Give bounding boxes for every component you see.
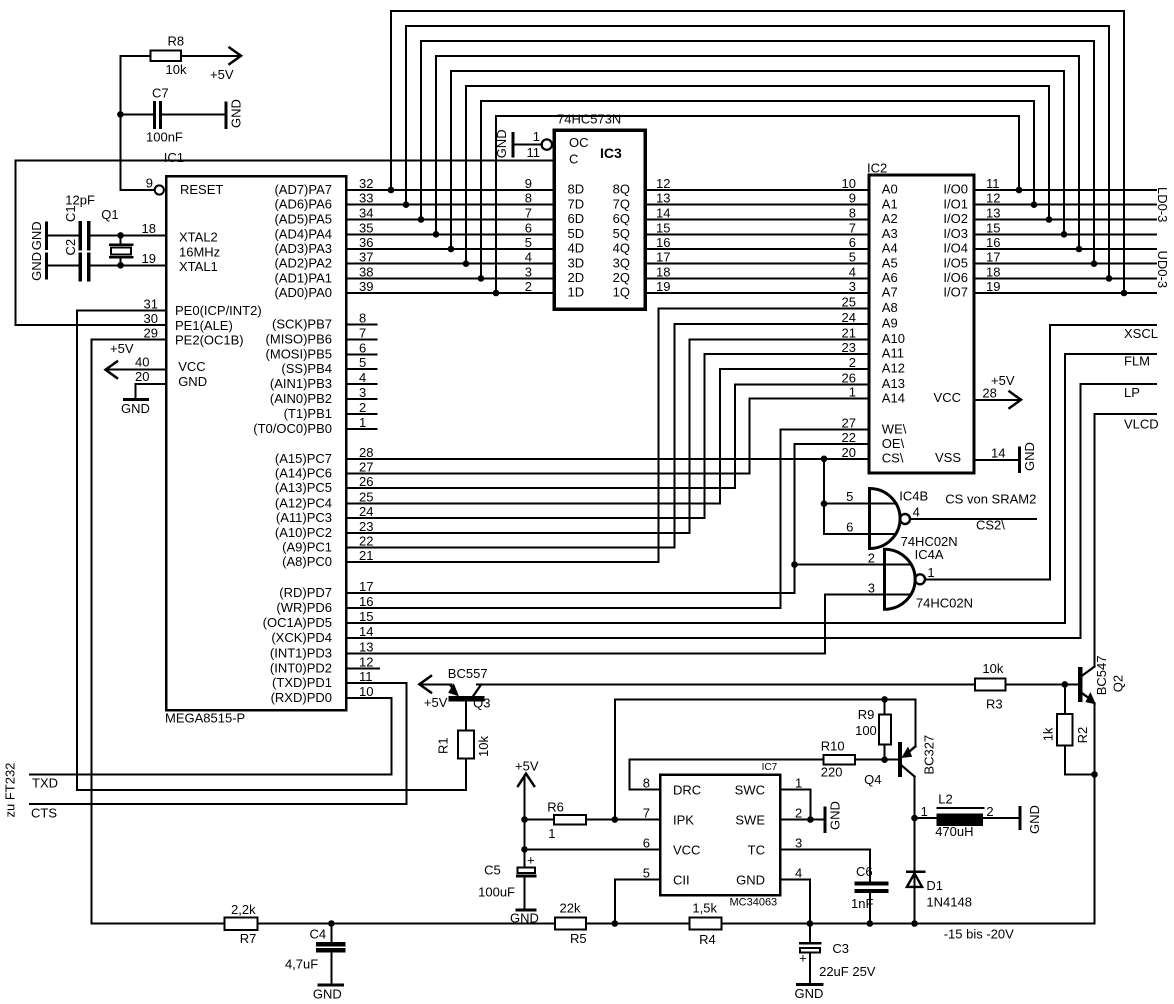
- svg-text:11: 11: [359, 669, 373, 684]
- svg-text:22: 22: [842, 430, 856, 445]
- crystal Q1 stubs: [120, 235, 122, 265]
- svg-text:(A8)PC0: (A8)PC0: [282, 554, 332, 569]
- svg-text:26: 26: [359, 474, 373, 489]
- junction PA7 riser: [388, 187, 395, 194]
- svg-text:A8: A8: [882, 300, 898, 315]
- wire IC4B pin5 input: [824, 503, 895, 505]
- svg-text:I/O6: I/O6: [943, 270, 968, 285]
- wire PC4 to A12 staircase: [346, 369, 869, 504]
- svg-text:12: 12: [986, 191, 1000, 206]
- wire R2 from Q2 base down and to emitter: [1065, 684, 1095, 774]
- svg-text:A10: A10: [882, 331, 905, 346]
- svg-text:18: 18: [986, 264, 1000, 279]
- svg-text:(AD6)PA6: (AD6)PA6: [274, 197, 332, 212]
- svg-text:3D: 3D: [568, 255, 585, 270]
- svg-text:A2: A2: [882, 211, 898, 226]
- svg-text:17: 17: [986, 250, 1000, 265]
- ground bar (IC2 VSS): [1018, 448, 1021, 472]
- svg-text:3: 3: [359, 385, 366, 400]
- wire I/O4 row: [974, 248, 1156, 250]
- wire PD7/RD to IC2 OE: [346, 444, 869, 593]
- bus wire PA2 to I/O2: [466, 86, 1049, 264]
- wire PC7/A15 row to IC2 CS: [346, 458, 869, 460]
- junction I/O7 dropper: [1121, 290, 1128, 297]
- svg-text:2: 2: [525, 279, 532, 294]
- +5V arrow right (R8): [230, 48, 242, 64]
- svg-text:2: 2: [868, 551, 875, 566]
- svg-text:PE0(ICP/INT2): PE0(ICP/INT2): [175, 303, 262, 318]
- wire PA6 row IC1 to IC3 7D: [346, 204, 554, 206]
- svg-text:(A10)PC2: (A10)PC2: [275, 525, 332, 540]
- capacitor C4 wire top: [330, 924, 332, 943]
- svg-text:R5: R5: [570, 931, 587, 946]
- svg-text:TXD: TXD: [32, 776, 58, 791]
- resistor R9 box: [879, 714, 891, 744]
- IC3 pin1 OC inversion circle: [542, 139, 552, 149]
- svg-text:1,5k: 1,5k: [692, 901, 717, 916]
- junction SWE ground node: [807, 816, 814, 823]
- svg-text:FLM: FLM: [1124, 354, 1150, 369]
- wire D1 vertical: [914, 818, 916, 923]
- junction C4 on rail: [328, 920, 335, 927]
- +5V arrow up (C5 node): [518, 774, 534, 786]
- svg-text:19: 19: [142, 251, 156, 266]
- svg-text:GND: GND: [510, 911, 539, 926]
- capacitor C1 plates: [80, 223, 89, 249]
- svg-text:23: 23: [359, 519, 373, 534]
- svg-text:GND: GND: [121, 401, 150, 416]
- svg-text:(MOSI)PB5: (MOSI)PB5: [266, 346, 332, 361]
- svg-text:LD0-3: LD0-3: [1155, 187, 1170, 222]
- ground bar (L2): [1019, 807, 1022, 828]
- capacitor C5 bottom plate: [517, 875, 535, 878]
- svg-text:4: 4: [525, 250, 532, 265]
- bus wire PA4 to I/O4: [436, 56, 1079, 249]
- svg-text:3: 3: [795, 835, 802, 850]
- svg-text:R7: R7: [240, 931, 257, 946]
- svg-text:C1: C1: [63, 205, 78, 222]
- svg-text:(RD)PD7: (RD)PD7: [279, 585, 332, 600]
- svg-text:(AIN0)PB2: (AIN0)PB2: [270, 391, 332, 406]
- transistor Q4 emitter diagonal: [909, 747, 915, 752]
- svg-text:I/O0: I/O0: [943, 182, 968, 197]
- resistor R8 box: [151, 51, 182, 62]
- wire 2Q to A6: [645, 277, 869, 279]
- svg-text:(A11)PC3: (A11)PC3: [276, 510, 332, 525]
- transistor Q4 emitter arrowhead: [902, 748, 911, 758]
- resistor R10 box: [824, 755, 855, 765]
- svg-text:4: 4: [795, 865, 802, 880]
- svg-text:XTAL2: XTAL2: [179, 230, 218, 245]
- svg-text:2Q: 2Q: [613, 270, 630, 285]
- stub PB5 pin6: [346, 353, 376, 355]
- stub PB3 pin4: [346, 383, 376, 385]
- wire R9 top: [884, 699, 886, 714]
- svg-text:7Q: 7Q: [613, 196, 630, 211]
- svg-text:35: 35: [359, 220, 373, 235]
- transistor Q3 collector diagonal: [473, 685, 481, 697]
- svg-text:10k: 10k: [476, 736, 491, 757]
- bus wire PA1 to I/O1: [481, 101, 1034, 278]
- svg-text:16: 16: [986, 235, 1000, 250]
- wire 6Q to A2: [645, 219, 869, 221]
- wire PE0 pin31 to lower-left run to R1: [77, 311, 466, 790]
- svg-text:+: +: [527, 853, 535, 868]
- wire C5 to ground: [524, 878, 526, 909]
- svg-text:(MISO)PB6: (MISO)PB6: [266, 331, 332, 346]
- svg-text:GND: GND: [178, 374, 207, 389]
- bottom rail -15V: [92, 923, 1095, 925]
- wire PA1 row IC1 to IC3 2D: [346, 277, 554, 279]
- svg-text:(A13)PC5: (A13)PC5: [275, 480, 332, 495]
- ground bar (IC7 SWE): [823, 808, 826, 832]
- svg-text:(AIN1)PB3: (AIN1)PB3: [270, 376, 332, 391]
- junction IC4B pin5 tap: [821, 500, 828, 507]
- svg-text:A4: A4: [882, 241, 898, 256]
- wire I/O6 row: [974, 277, 1156, 279]
- wire IC7 pin5 CII down to R5 node: [615, 879, 660, 923]
- svg-text:I/O4: I/O4: [943, 241, 968, 256]
- svg-text:4Q: 4Q: [613, 241, 630, 256]
- svg-text:R2: R2: [1075, 727, 1090, 744]
- bus wire PA7 to I/O7: [391, 11, 1124, 293]
- junction I/O4 dropper: [1076, 246, 1083, 253]
- svg-text:A11: A11: [882, 346, 904, 361]
- svg-text:10k: 10k: [982, 661, 1003, 676]
- bus wire PA5 to I/O5: [421, 41, 1094, 264]
- svg-text:25: 25: [359, 490, 373, 505]
- svg-text:1: 1: [795, 776, 802, 791]
- svg-text:16: 16: [359, 594, 373, 609]
- svg-text:1Q: 1Q: [613, 285, 630, 300]
- svg-text:A13: A13: [882, 376, 905, 391]
- wire R10 to Q4 base: [855, 759, 898, 761]
- svg-text:5: 5: [849, 250, 856, 265]
- svg-text:6: 6: [643, 835, 650, 850]
- IC3 74HC573N box: [554, 130, 645, 309]
- wire PC6 to A14 staircase: [346, 399, 869, 474]
- svg-text:21: 21: [359, 548, 373, 563]
- svg-text:GND: GND: [795, 986, 824, 1001]
- svg-text:220: 220: [821, 765, 843, 780]
- svg-text:D1: D1: [926, 878, 943, 893]
- svg-text:36: 36: [359, 235, 373, 250]
- svg-text:5: 5: [643, 865, 650, 880]
- wire PC2 to A10 staircase: [346, 339, 869, 533]
- junction CII/R5 on rail: [612, 920, 619, 927]
- wire I/O2 row: [974, 219, 1156, 221]
- resistor R3 box: [975, 678, 1005, 690]
- svg-text:2: 2: [849, 355, 856, 370]
- svg-text:2D: 2D: [568, 270, 585, 285]
- capacitor C5 top plate (hollow): [517, 867, 535, 873]
- svg-text:10k: 10k: [166, 62, 187, 77]
- diode D1 triangle: [907, 873, 922, 887]
- svg-text:7D: 7D: [568, 196, 585, 211]
- NOR gate IC4B body: [870, 489, 901, 549]
- bus wire PA6 to I/O6: [406, 26, 1109, 278]
- capacitor C7 plates: [155, 103, 161, 128]
- svg-text:DRC: DRC: [673, 783, 701, 798]
- junction XTAL2/C1/Q1: [117, 232, 124, 239]
- svg-text:(AD7)PA7: (AD7)PA7: [274, 182, 332, 197]
- wire Q2 collector up to VLCD: [1094, 414, 1096, 667]
- stub PB4 pin5: [346, 368, 376, 370]
- svg-text:470uH: 470uH: [935, 824, 973, 839]
- svg-text:8: 8: [643, 776, 650, 791]
- resistor R2 box: [1057, 714, 1072, 745]
- wire PC5 to A13 staircase: [346, 384, 869, 488]
- svg-text:BC557: BC557: [448, 666, 488, 681]
- svg-text:39: 39: [359, 279, 373, 294]
- NOR gate IC4A body: [885, 549, 916, 609]
- IC1 MEGA8515-P box: [166, 176, 346, 710]
- svg-text:13: 13: [359, 640, 373, 655]
- wire PA0 row IC1 to IC3 1D: [346, 292, 554, 294]
- svg-text:13: 13: [656, 191, 670, 206]
- svg-text:14: 14: [359, 624, 373, 639]
- svg-text:CTS: CTS: [31, 806, 57, 821]
- svg-text:IC2: IC2: [867, 161, 887, 176]
- stub PB1 pin2: [346, 413, 376, 415]
- junction PA2 riser: [463, 260, 470, 267]
- capacitor C3 wire to ground: [809, 953, 811, 984]
- capacitor C2 plates: [80, 254, 89, 280]
- svg-text:A9: A9: [882, 316, 898, 331]
- wire PD3/INT1 to IC4A pin3: [346, 595, 911, 654]
- crystal Q1 plates: [110, 245, 132, 257]
- svg-text:TC: TC: [748, 842, 765, 857]
- svg-text:7: 7: [849, 220, 856, 235]
- junction R6/IPK node: [612, 816, 619, 823]
- svg-text:C4: C4: [309, 927, 326, 942]
- svg-text:100uF: 100uF: [478, 885, 515, 900]
- capacitor C7 left wire: [120, 113, 152, 115]
- svg-text:-15 bis -20V: -15 bis -20V: [944, 927, 1014, 942]
- IC4B output inversion bubble: [900, 514, 910, 524]
- svg-text:9: 9: [525, 176, 532, 191]
- svg-text:11: 11: [527, 145, 541, 160]
- svg-text:23: 23: [842, 340, 856, 355]
- wire 1Q to A7: [645, 292, 869, 294]
- svg-text:1: 1: [548, 826, 555, 841]
- svg-text:+5V: +5V: [515, 759, 539, 774]
- svg-text:(WR)PD6: (WR)PD6: [276, 600, 332, 615]
- svg-text:8: 8: [359, 311, 366, 326]
- wire IC7 pin8 DRC up to R10 row: [629, 760, 823, 790]
- svg-text:OE\: OE\: [882, 436, 905, 451]
- svg-text:15: 15: [986, 220, 1000, 235]
- wire L2 pin2 to ground: [982, 817, 1020, 819]
- svg-text:2: 2: [986, 804, 993, 819]
- svg-text:CS von SRAM2: CS von SRAM2: [945, 492, 1036, 507]
- svg-text:24: 24: [842, 310, 856, 325]
- junction R9 top node: [881, 696, 888, 703]
- svg-text:10: 10: [842, 176, 856, 191]
- svg-text:IPK: IPK: [673, 813, 694, 828]
- svg-text:L2: L2: [938, 792, 952, 807]
- svg-text:22k: 22k: [560, 901, 581, 916]
- svg-text:1: 1: [921, 804, 928, 819]
- wire IC7 pin4 GND to rail: [780, 879, 810, 923]
- svg-text:12pF: 12pF: [65, 193, 95, 208]
- stub PB2 pin3: [346, 398, 376, 400]
- svg-text:LP: LP: [1124, 385, 1140, 400]
- wire IC7 pin6 VCC to C5 node: [525, 848, 661, 850]
- transistor Q4 collector diagonal: [902, 766, 914, 777]
- junction PA6 riser: [403, 201, 410, 208]
- svg-text:17: 17: [656, 250, 670, 265]
- wire IC3 pin1 OC to ground bar: [513, 144, 542, 146]
- inductor L2 top line: [937, 807, 983, 809]
- svg-text:A7: A7: [882, 285, 898, 300]
- wire I/O0 row: [974, 189, 1156, 191]
- svg-text:XTAL1: XTAL1: [179, 259, 218, 274]
- ground bar (IC1 GND): [125, 398, 148, 401]
- svg-text:(INT1)PD3: (INT1)PD3: [270, 646, 332, 661]
- svg-text:+5V: +5V: [110, 341, 134, 356]
- transistor Q2 emitter diagonal: [1082, 694, 1089, 699]
- svg-text:8Q: 8Q: [613, 182, 630, 197]
- svg-text:(AD5)PA5: (AD5)PA5: [274, 212, 332, 227]
- svg-text:A12: A12: [882, 361, 905, 376]
- transistor Q3 emitter diagonal: [451, 685, 457, 692]
- svg-text:Q3: Q3: [473, 696, 490, 711]
- ground bar (IC3 OC): [511, 134, 514, 157]
- wire L2 row from Q4 collector node: [915, 817, 938, 819]
- svg-text:24: 24: [359, 504, 373, 519]
- wire PA4 row IC1 to IC3 5D: [346, 233, 554, 235]
- svg-text:CS\: CS\: [882, 450, 904, 465]
- wire IC7 pin3 TC to C6: [780, 849, 870, 881]
- IC7 MC34063 box: [660, 775, 780, 896]
- ground bar (C7): [224, 103, 227, 128]
- svg-text:IC7: IC7: [762, 762, 778, 773]
- svg-text:PE2(OC1B): PE2(OC1B): [175, 332, 244, 347]
- bus wire PA0 to I/O0: [496, 116, 1019, 293]
- wire I/O1 row: [974, 204, 1156, 206]
- svg-text:CS2\: CS2\: [976, 518, 1005, 533]
- svg-text:(AD4)PA4: (AD4)PA4: [274, 226, 332, 241]
- capacitor C7 right wire to GND: [162, 113, 226, 115]
- svg-text:R8: R8: [168, 34, 185, 49]
- wire PA7 row IC1 to IC3 8D: [346, 189, 554, 191]
- svg-text:2,2k: 2,2k: [231, 902, 256, 917]
- +5V arrow left (Q3 emitter): [419, 676, 431, 693]
- svg-text:XSCL: XSCL: [1124, 326, 1158, 341]
- svg-text:7: 7: [643, 806, 650, 821]
- svg-text:6Q: 6Q: [613, 211, 630, 226]
- wire R8 right to +5V arrow: [181, 55, 240, 57]
- svg-text:A1: A1: [882, 196, 898, 211]
- svg-text:BC327: BC327: [922, 735, 937, 775]
- bus wire PA3 to I/O3: [451, 71, 1064, 249]
- svg-text:GND: GND: [313, 987, 342, 1002]
- svg-text:11: 11: [986, 176, 1000, 191]
- svg-text:12: 12: [359, 654, 373, 669]
- svg-text:21: 21: [842, 325, 856, 340]
- svg-text:14: 14: [656, 206, 670, 221]
- svg-text:1: 1: [927, 565, 934, 580]
- svg-text:GND: GND: [29, 252, 44, 281]
- svg-text:7: 7: [359, 325, 366, 340]
- svg-text:3: 3: [849, 279, 856, 294]
- stub PD2 pin12: [346, 667, 379, 669]
- svg-text:30: 30: [144, 311, 158, 326]
- svg-text:IC3: IC3: [600, 145, 622, 161]
- svg-text:MC34063: MC34063: [729, 897, 777, 909]
- svg-text:5: 5: [359, 355, 366, 370]
- svg-text:8D: 8D: [568, 182, 585, 197]
- svg-text:(AD0)PA0: (AD0)PA0: [274, 285, 332, 300]
- junction R9 bottom / Q4 base node: [881, 756, 888, 763]
- svg-text:VLCD: VLCD: [1124, 417, 1159, 432]
- svg-text:19: 19: [656, 279, 670, 294]
- junction VCC/C5 node: [521, 846, 528, 853]
- svg-text:(TXD)PD1: (TXD)PD1: [272, 675, 332, 690]
- IC2 SRAM box: [869, 175, 974, 473]
- junction I/O6 dropper: [1106, 275, 1113, 282]
- svg-text:6: 6: [846, 519, 853, 534]
- junction PA5 riser: [418, 216, 425, 223]
- svg-text:9: 9: [849, 191, 856, 206]
- wire CS tap down to IC4B inputs: [824, 459, 894, 534]
- svg-text:7: 7: [525, 206, 532, 221]
- wire 4Q to A4: [645, 248, 869, 250]
- svg-text:4: 4: [359, 370, 366, 385]
- svg-text:1: 1: [533, 129, 540, 144]
- capacitor C3 wire top: [809, 924, 811, 942]
- resistor R6 box: [554, 815, 586, 824]
- svg-text:IC1: IC1: [164, 150, 184, 165]
- junction Q4 collector / L2 node: [911, 815, 918, 822]
- capacitor C3 top plate: [800, 942, 820, 945]
- svg-text:C: C: [569, 152, 578, 167]
- svg-text:VCC: VCC: [178, 359, 205, 374]
- svg-text:C2: C2: [63, 239, 78, 256]
- svg-text:Q2: Q2: [1111, 675, 1126, 692]
- svg-text:5: 5: [525, 235, 532, 250]
- svg-text:6: 6: [525, 220, 532, 235]
- junction C6 on rail: [867, 920, 874, 927]
- wire 5Q to A3: [645, 233, 869, 235]
- wire IC2 VSS pin14 to ground: [974, 459, 1020, 461]
- wire Q4 collector down to L2 node: [914, 777, 916, 819]
- svg-text:(SCK)PB7: (SCK)PB7: [272, 317, 332, 332]
- svg-text:37: 37: [359, 250, 373, 265]
- ground bar (C5): [517, 909, 535, 912]
- junction +5V/R6 node: [521, 816, 528, 823]
- wire PD1/TXD down to CTS row: [30, 683, 407, 804]
- wire IC2 VCC pin28 to +5V arrow: [974, 399, 1019, 401]
- svg-text:18: 18: [656, 264, 670, 279]
- svg-text:PE1(ALE): PE1(ALE): [175, 318, 233, 333]
- svg-text:OC: OC: [569, 135, 589, 150]
- wire Q2 emitter down to rail: [1094, 703, 1096, 924]
- +5V arrow right (IC2 VCC): [1010, 392, 1022, 409]
- svg-text:5: 5: [846, 489, 853, 504]
- stub PB0 pin1: [346, 428, 376, 430]
- svg-text:GND: GND: [1027, 805, 1042, 834]
- stub PB6 pin7: [346, 338, 376, 340]
- svg-text:5D: 5D: [568, 226, 585, 241]
- resistor R4 box: [689, 917, 721, 929]
- wire C5 node vertical: [524, 820, 526, 868]
- junction D1 on rail: [911, 920, 918, 927]
- transistor Q4 base bar: [898, 744, 902, 775]
- wire XTAL2 row (pin 18): [46, 234, 166, 236]
- wire RD tap to IC4A pin2: [795, 564, 912, 566]
